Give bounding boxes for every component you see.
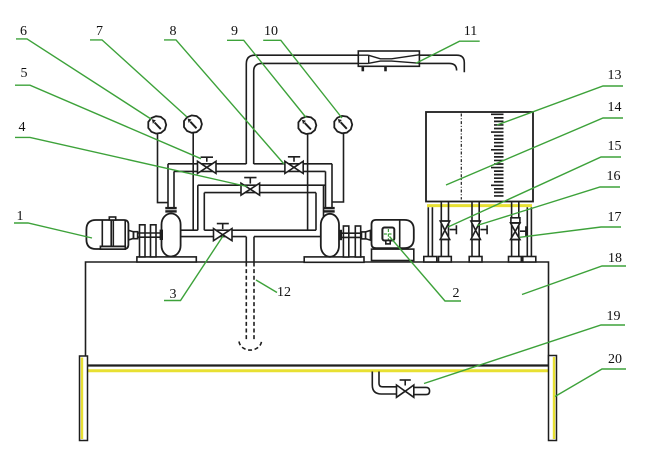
svg-text:7: 7 [96, 24, 103, 39]
motor M2 divider [399, 220, 401, 248]
leader 13 [497, 86, 623, 125]
motor M1 top cap [109, 217, 115, 220]
pipe: row C right downcomer [316, 185, 324, 230]
leader 5 [15, 85, 201, 159]
gauge line 9 [307, 133, 309, 230]
pipe: central downcomer solid part [246, 237, 254, 262]
svg-text:1: 1 [17, 209, 24, 224]
drop pipe 3 (valve 17) [512, 202, 519, 257]
reservoir bottom line [86, 364, 549, 366]
svg-text:3: 3 [170, 287, 177, 302]
pipe: suction header [181, 229, 317, 231]
valve 15 [440, 221, 456, 239]
green leader lines [14, 39, 626, 397]
leader 2 [390, 237, 462, 302]
bearing posts left [140, 225, 146, 257]
drain valve 19 [397, 385, 414, 397]
svg-text:5: 5 [21, 66, 28, 81]
bearing posts right [343, 226, 348, 257]
measuring tank 13/14 [426, 112, 533, 202]
drain outlet stub [414, 387, 430, 394]
pressure gauge 6 [148, 116, 166, 133]
svg-text:17: 17 [608, 210, 622, 225]
measuring tank centerline (dash-dot) [460, 114, 462, 200]
right leg 20 [549, 356, 557, 441]
motor M1 shaft stub [128, 230, 133, 240]
leader 3 [164, 236, 223, 301]
motor M2 terminal box centerlines (green) [384, 233, 393, 235]
svg-text:8: 8 [170, 24, 177, 39]
pump P1 base plate [137, 257, 196, 262]
leader 8 [164, 40, 284, 164]
tank frame left post [428, 207, 432, 256]
leader 12 [256, 280, 277, 293]
number labels [17, 24, 623, 367]
drop pipe 1 (valve 15) [441, 202, 448, 257]
motor M1 foot [100, 246, 125, 249]
gauge line 7 [192, 133, 194, 230]
valve D (label 3) [214, 224, 233, 241]
leader 7 [90, 40, 187, 117]
suction downpipe 12 (dashed) [245, 263, 247, 342]
valve 16 [471, 221, 487, 239]
leader 19 [424, 325, 625, 384]
yellow beam under measuring tank [427, 204, 532, 207]
pump P1 collar [165, 207, 176, 209]
leader 4 [15, 137, 247, 186]
svg-text:4: 4 [19, 120, 26, 135]
flow meter legs [361, 66, 364, 71]
motor M2 body [372, 220, 414, 248]
pipe: discharge riser pump1 [168, 164, 174, 207]
measuring tank graduations [491, 114, 504, 196]
svg-text:6: 6 [20, 24, 27, 39]
leader 6 [16, 39, 151, 119]
flow meter 11 [358, 51, 419, 66]
svg-text:2: 2 [453, 286, 460, 301]
svg-text:20: 20 [608, 352, 622, 367]
svg-text:14: 14 [608, 100, 622, 115]
gauge line 10 [332, 133, 344, 203]
motor M1 ribs [102, 220, 125, 249]
pump P2 collar [323, 207, 335, 209]
svg-text:10: 10 [264, 24, 278, 39]
pipe: flow meter outlet and right stub [419, 55, 464, 72]
svg-text:16: 16 [607, 169, 621, 184]
pump P2 outlet nub [339, 230, 342, 240]
pump P1 body [162, 214, 181, 257]
valve 17 [511, 218, 526, 240]
pressure gauge 7 [184, 115, 202, 132]
shaft right [339, 233, 365, 237]
left leg 20a [80, 356, 88, 441]
motor M2 pedestal [372, 249, 414, 260]
valve C (label 4) [241, 178, 260, 196]
shaft collar left [134, 232, 138, 239]
suction bell mouth (dashed arc) [239, 342, 262, 351]
motor M1 body [86, 220, 128, 249]
reservoir bottom yellow strip [88, 369, 548, 372]
pipe: row A (upper valve row) [168, 163, 332, 165]
motor M2 shaft stub [365, 230, 370, 240]
valve A (label 5) [198, 157, 217, 173]
drain pipe 19 [372, 372, 396, 395]
drop pipe 2 (valve 16) [472, 202, 479, 257]
leader 18 [522, 266, 626, 295]
tank frame right post [527, 207, 531, 256]
valve B (label 8) [285, 157, 303, 174]
shaft collar right [362, 232, 366, 239]
pipe: row C left downcomer [198, 185, 205, 230]
svg-text:19: 19 [607, 309, 621, 324]
svg-text:13: 13 [608, 68, 622, 83]
svg-text:12: 12 [277, 285, 291, 300]
leader 10 [263, 40, 342, 118]
leader 16 [477, 187, 620, 226]
motor M2 foot under box [386, 241, 390, 244]
gauge line 6 [158, 133, 169, 203]
leader 15 [448, 157, 621, 227]
leader 14 [446, 118, 623, 185]
pump P1 inlet nub [160, 230, 163, 240]
frame post feet [424, 257, 437, 263]
leader 20 [555, 369, 626, 397]
svg-text:18: 18 [608, 251, 622, 266]
pump P2 body [321, 214, 339, 257]
pipe: row C (middle valve row) [198, 184, 326, 186]
pipe: discharge riser pump2 [326, 164, 333, 207]
leader 17 [520, 227, 621, 237]
reservoir tank 18 [86, 262, 549, 366]
svg-text:9: 9 [231, 24, 238, 39]
svg-text:11: 11 [464, 24, 477, 39]
shaft left [134, 233, 162, 237]
motor M2 terminal box [382, 228, 394, 241]
pressure gauge 10 [334, 116, 352, 133]
pressure gauge 9 [298, 117, 316, 134]
pipe: central riser to top [246, 55, 358, 164]
pump P2 base plate [304, 257, 364, 262]
svg-text:15: 15 [608, 139, 622, 154]
leader 1 [14, 223, 92, 238]
leader 9 [227, 40, 306, 117]
leader 11 [416, 41, 480, 63]
